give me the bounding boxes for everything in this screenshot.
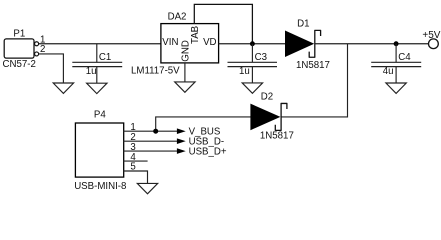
arrow V_BUS bbox=[177, 128, 186, 134]
regulator DA2 body bbox=[161, 24, 219, 63]
ground (C1) bbox=[87, 83, 107, 93]
svg-text:LM1117-5V: LM1117-5V bbox=[131, 66, 180, 77]
wire branch from +5V rail down to D2 cathode bbox=[281, 44, 347, 117]
svg-text:CN57-2: CN57-2 bbox=[3, 59, 36, 70]
svg-text:USB-MINI-8: USB-MINI-8 bbox=[74, 181, 126, 192]
svg-text:D2: D2 bbox=[261, 92, 273, 103]
svg-text:1u: 1u bbox=[239, 66, 250, 77]
svg-text:P4: P4 bbox=[94, 110, 106, 121]
wire D1 cathode to +5V terminal bbox=[315, 43, 428, 45]
svg-text:D1: D1 bbox=[297, 19, 309, 30]
svg-text:C1: C1 bbox=[99, 52, 111, 63]
svg-text:1N5817: 1N5817 bbox=[260, 130, 294, 141]
wire C3 stem bbox=[251, 44, 253, 83]
svg-text:C3: C3 bbox=[255, 52, 267, 63]
P1 pin 1 circle bbox=[35, 42, 39, 46]
wire P4 pin4 stub bbox=[123, 160, 147, 162]
node junction VD/TAB/C3/D1 bbox=[250, 41, 255, 46]
ground (DA2 GND) bbox=[175, 82, 195, 92]
wire P1 pin1 to DA2 VIN bbox=[39, 43, 161, 45]
wire P4 pin3 to USB_D+ bbox=[123, 150, 177, 152]
P1 pin 2 circle bbox=[35, 52, 39, 56]
wire P4 pin2 to USB_D- bbox=[123, 140, 177, 142]
wire P4 pin1 to V_BUS bbox=[123, 130, 177, 132]
svg-text:C4: C4 bbox=[398, 52, 411, 63]
ground (P1 pin2) bbox=[53, 83, 73, 93]
capacitor C1 plates bbox=[72, 62, 122, 66]
node junction at C4 bbox=[394, 41, 399, 46]
diode D1 triangle bbox=[285, 31, 314, 57]
connector P1 body bbox=[4, 39, 34, 58]
ground (C3) bbox=[242, 83, 262, 93]
svg-text:DA2: DA2 bbox=[168, 11, 187, 22]
ground (C4) bbox=[386, 83, 406, 93]
wire P4 pin5 to ground bbox=[123, 171, 147, 183]
svg-text:4u: 4u bbox=[383, 66, 394, 77]
svg-text:USB_D+: USB_D+ bbox=[189, 147, 227, 158]
arrow USB_D+ bbox=[177, 148, 186, 154]
diode D2 triangle bbox=[250, 104, 280, 131]
diode D1 schottky cathode bar bbox=[309, 30, 320, 57]
terminal +5V circle bbox=[429, 39, 439, 49]
svg-text:1u: 1u bbox=[86, 66, 97, 77]
svg-text:VD: VD bbox=[203, 37, 216, 48]
wire C1 stem bbox=[96, 44, 98, 83]
wire P1 pin2 to ground bbox=[39, 54, 64, 83]
wire C4 stem bbox=[395, 44, 397, 83]
connector P4 body bbox=[75, 123, 123, 177]
capacitor C3 plates bbox=[228, 62, 278, 66]
svg-text:1N5817: 1N5817 bbox=[296, 60, 330, 71]
node junction at P4 pin1 bbox=[153, 129, 158, 134]
svg-text:+5V: +5V bbox=[422, 30, 440, 41]
svg-text:VIN: VIN bbox=[162, 37, 178, 48]
capacitor C4 plates bbox=[371, 62, 421, 66]
ground (P4 pin5) bbox=[137, 183, 157, 193]
wire DA2 GND pin to ground bbox=[184, 63, 186, 82]
svg-text:2: 2 bbox=[40, 44, 45, 55]
svg-text:TAB: TAB bbox=[190, 26, 201, 44]
diode D2 schottky cathode bar bbox=[275, 103, 287, 130]
wire P4 pin1 riser to D2 anode bbox=[156, 117, 251, 131]
svg-text:P1: P1 bbox=[13, 28, 25, 39]
wire TAB loop to output node bbox=[194, 4, 252, 43]
wire DA2 VD to D1 anode bbox=[219, 43, 286, 45]
arrow USB_D- bbox=[177, 138, 186, 144]
